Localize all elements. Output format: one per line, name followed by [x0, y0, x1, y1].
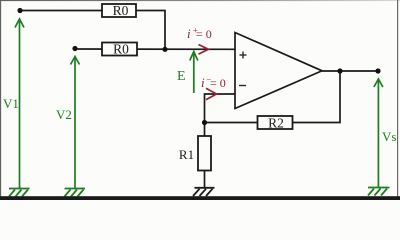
svg-text:i: i [187, 26, 191, 41]
label i+ = 0 [187, 26, 212, 42]
svg-text:R2: R2 [268, 115, 284, 130]
resistor R0 (top) [102, 3, 136, 18]
current arrow i- (chevron on - wire) [206, 88, 217, 100]
wire inverting input segment [205, 94, 235, 123]
svg-text:Vs: Vs [382, 129, 396, 144]
svg-text:V1: V1 [3, 96, 19, 111]
current arrow i+ (chevron on + wire) [199, 45, 209, 55]
ground (green, V2) [65, 189, 86, 197]
label i- = 0 [201, 75, 226, 91]
node B (V2 input) [72, 46, 77, 51]
wire node B to R1 top [204, 123, 206, 137]
svg-text:R0: R0 [113, 3, 129, 18]
resistor R2 [258, 115, 293, 130]
svg-text:= 0: = 0 [196, 27, 212, 41]
node A (V1 input) [17, 8, 22, 13]
wire feedback row through R2 [205, 71, 341, 123]
node C (summing junction at + input) [162, 47, 167, 52]
voltage arrow V1 [15, 19, 24, 188]
node D (inverting / R1 / R2 junction) [202, 120, 207, 125]
svg-text:i: i [201, 75, 205, 90]
svg-text:= 0: = 0 [210, 76, 226, 90]
svg-text:R0: R0 [113, 42, 129, 57]
svg-text:R1: R1 [179, 147, 194, 162]
resistor R0 (second) [102, 42, 137, 57]
wire output [322, 70, 378, 72]
ground (green, V1) [9, 189, 30, 197]
voltage arrow V2 [71, 57, 80, 189]
node E (output/feedback) [337, 68, 342, 73]
wire second row to op-amp + input [75, 48, 235, 50]
arrow E (differential input) [190, 52, 198, 94]
ground (green, Vs) [368, 188, 390, 196]
svg-text:V2: V2 [56, 107, 72, 122]
op-amp U1 [235, 33, 322, 109]
node F (output to Vs) [375, 68, 380, 73]
voltage arrow Vs [374, 79, 383, 187]
wire R1 bottom to ground [204, 171, 206, 188]
ground (black, under R1) [193, 188, 215, 196]
svg-text:E: E [177, 69, 186, 84]
resistor R1 (vertical) [179, 136, 211, 171]
wire top row from node A through R0 to drop [20, 11, 165, 50]
